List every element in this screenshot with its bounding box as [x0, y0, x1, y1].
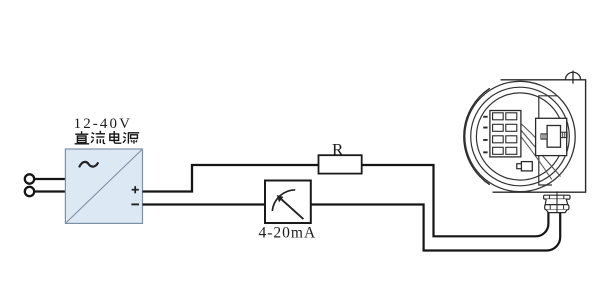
terminal screw slot 4	[483, 151, 487, 153]
cover inner ring (window)	[476, 93, 563, 180]
label glyph 源	[123, 133, 139, 144]
label 4-20mA	[259, 225, 317, 242]
label glyph 流	[91, 131, 105, 144]
resistor R	[319, 155, 362, 173]
module left lead	[541, 134, 547, 139]
cable gland taper	[546, 210, 566, 213]
terminal input A	[25, 174, 34, 183]
wire power supply plus to top rail and resistor R	[143, 165, 319, 192]
auxiliary connector block	[517, 162, 533, 171]
cable gland nut bottom	[545, 205, 569, 210]
wire terminal B to power supply	[34, 190, 66, 192]
label 12-40V	[74, 116, 132, 132]
svg-text:R: R	[332, 140, 344, 159]
wire resistor R to transmitter cable (inner conductor)	[362, 165, 549, 236]
cable gland barrel	[545, 199, 568, 205]
internal hookup wire 3	[521, 137, 552, 180]
minus terminal label of power supply	[131, 203, 139, 205]
terminal block contact 3	[493, 136, 517, 143]
cable gland center line	[556, 191, 558, 212]
terminal block contact 2	[493, 124, 517, 131]
label zhi-liu-dian-yuan (DC power) glyph 直	[75, 131, 90, 144]
power supply PS1 12-40V box	[65, 149, 142, 223]
label R	[332, 140, 344, 159]
wire ammeter to transmitter cable (outer conductor)	[311, 205, 560, 251]
terminal block contact 1	[493, 113, 517, 120]
internal hookup wire 2	[521, 131, 560, 177]
svg-text:4-20mA: 4-20mA	[259, 225, 317, 242]
terminal screw slot 2	[483, 127, 487, 129]
cover middle ring	[471, 87, 570, 186]
plus terminal label of power supply	[132, 186, 139, 193]
ammeter M1 box	[265, 181, 311, 224]
ammeter needle with arrowhead	[277, 195, 304, 219]
cover outer ring	[465, 81, 575, 191]
internal hookup wire 1	[521, 124, 546, 151]
AC symbol tilde in power supply	[80, 162, 98, 167]
internal partition plate	[539, 96, 558, 185]
vent screw on top of housing	[565, 71, 580, 84]
electronics module body	[547, 126, 560, 148]
cover clamp arc	[464, 88, 490, 184]
label glyph 电	[110, 131, 122, 143]
terminal block in housing	[490, 111, 521, 157]
wire terminal A to power supply	[34, 178, 66, 180]
svg-text:12-40V: 12-40V	[74, 116, 132, 132]
wire power supply minus to ammeter	[143, 203, 266, 205]
terminal input B	[25, 187, 34, 196]
transmitter housing body	[493, 80, 586, 192]
ammeter scale arc	[272, 190, 295, 211]
terminal block contact 4	[493, 147, 517, 154]
cable gland nut top	[544, 195, 570, 199]
electronics module mounting plate	[536, 118, 567, 155]
module right lead	[561, 132, 568, 137]
terminal screw slot 3	[483, 139, 487, 141]
terminal screw slot 1	[483, 116, 487, 118]
